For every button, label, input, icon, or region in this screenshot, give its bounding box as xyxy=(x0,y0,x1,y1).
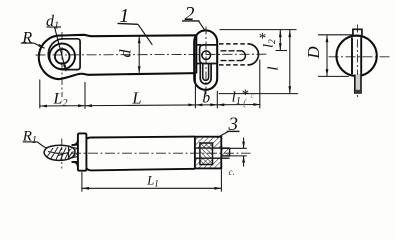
collar right face xyxy=(85,140,87,167)
dimension d vertical line xyxy=(138,37,140,73)
leader R xyxy=(34,43,45,48)
cotter plate 2 outer stadium xyxy=(194,30,217,89)
extension line bottom for l xyxy=(219,93,298,95)
plate hole circle xyxy=(202,51,211,60)
rod right end line xyxy=(195,35,197,73)
tang band bottom line xyxy=(195,157,230,159)
leader 2 xyxy=(199,21,205,30)
L1 dimension line xyxy=(82,187,222,189)
tang band top line xyxy=(195,147,230,149)
hidden tang outline dashed top xyxy=(219,43,248,45)
D extension top xyxy=(318,34,353,36)
plate slot outer U xyxy=(200,64,211,84)
tick at slot top for l2 xyxy=(276,50,288,52)
circle D xyxy=(336,36,376,76)
s thickness extension bottom xyxy=(230,155,247,157)
centerline vertical circle view xyxy=(356,25,358,100)
s thickness extension top xyxy=(230,147,247,149)
wire centerline vertical plate xyxy=(205,27,207,96)
cotter bar chords xyxy=(351,38,353,75)
eye rim section hatched xyxy=(69,147,78,159)
tab above circle xyxy=(353,29,362,36)
tang rounded end cap xyxy=(248,44,259,65)
leader d1 through hole xyxy=(55,27,67,71)
eye hole inner circle d1 xyxy=(55,49,70,64)
eye inner boss contour xyxy=(48,39,80,70)
leader 3 xyxy=(217,131,229,137)
eye block right face line xyxy=(86,35,91,36)
L1 extension right xyxy=(220,170,222,192)
block hatch bottom band xyxy=(196,158,221,168)
cotter cross-section xyxy=(200,143,213,165)
svg-text:R: R xyxy=(21,30,32,47)
svg-text:d: d xyxy=(118,49,135,58)
extension line x81.5 block right xyxy=(84,82,86,109)
extension line x195.4 rod end xyxy=(194,74,196,108)
centerline vertical eye bottom view xyxy=(61,139,63,169)
collar left face xyxy=(77,140,79,167)
svg-text:c.: c. xyxy=(229,167,235,177)
tang protrusion xyxy=(221,148,229,156)
wire centerline vertical eye hole xyxy=(61,32,63,97)
blob scribble hatch xyxy=(47,147,73,160)
svg-text:L: L xyxy=(131,88,141,107)
svg-text:b: b xyxy=(202,90,210,107)
collar bottom profile with fillets and rod bottom line xyxy=(72,162,195,171)
centerline horizontal bottom view xyxy=(54,152,251,154)
lower bar below circle xyxy=(355,75,361,93)
D dimension line xyxy=(326,35,328,76)
wire centerline main horizontal top view xyxy=(36,53,269,56)
svg-text:l: l xyxy=(266,67,282,71)
neck top line xyxy=(72,144,79,146)
block hatch top band xyxy=(196,137,221,148)
centerline horizontal circle view xyxy=(329,56,391,58)
slot in tang bottom line xyxy=(221,60,241,62)
dimension l2 line xyxy=(279,30,281,50)
extension line x40 eye left xyxy=(39,80,41,109)
svg-text:c: c xyxy=(251,92,254,100)
extension line x217.3 plate right xyxy=(216,91,218,109)
eye side blob outline xyxy=(44,145,75,160)
collar top profile with fillets and rod top line xyxy=(72,133,195,145)
hidden tang outline dashed bottom xyxy=(219,64,248,66)
L1 extension left xyxy=(81,172,83,192)
slot in tang top line xyxy=(221,50,241,52)
svg-text:D: D xyxy=(304,46,323,60)
extension line top for l2 and l xyxy=(220,29,297,31)
leader 1 xyxy=(138,24,152,45)
s dimension line with outside arrows xyxy=(243,138,245,167)
leader R1 xyxy=(37,142,47,149)
main dimension line y105 xyxy=(40,105,260,107)
dimension l line xyxy=(289,30,291,93)
extension line x259.3 tang end xyxy=(259,60,261,109)
tang window through plate xyxy=(197,45,217,64)
D extension bottom xyxy=(318,75,349,77)
svg-text:*: * xyxy=(259,30,267,46)
rod body outline with eye end xyxy=(39,35,197,79)
slotted head block xyxy=(195,137,221,169)
plate slot inner U xyxy=(203,64,209,81)
slot in tang end cap xyxy=(241,51,246,61)
eye hole outer circle xyxy=(49,44,75,70)
neck bottom line xyxy=(72,161,79,163)
